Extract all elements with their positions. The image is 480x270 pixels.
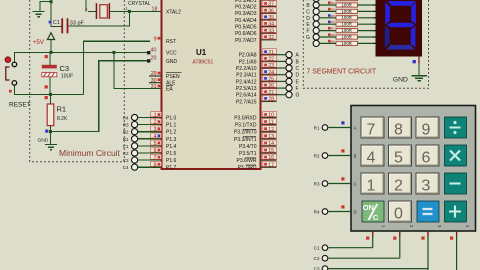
svg-text:C: C [373, 213, 379, 222]
svg-text:100R: 100R [342, 2, 352, 7]
svg-text:F: F [306, 29, 309, 35]
svg-text:R8: R8 [331, 33, 335, 37]
svg-text:7: 7 [366, 122, 375, 139]
svg-text:GND: GND [38, 137, 49, 143]
svg-text:20: 20 [151, 56, 157, 62]
svg-text:0: 0 [394, 206, 403, 223]
svg-text:RST: RST [166, 39, 176, 45]
svg-text:P2.1/A9: P2.1/A9 [239, 59, 257, 65]
svg-text:RESET: RESET [9, 102, 31, 109]
svg-text:G: G [296, 93, 300, 99]
svg-text:P1.3: P1.3 [166, 137, 177, 143]
svg-text:25: 25 [268, 77, 274, 83]
svg-text:G: G [306, 35, 310, 41]
svg-text:4: 4 [154, 134, 157, 140]
svg-text:R3: R3 [123, 123, 129, 128]
svg-text:1: 1 [154, 113, 157, 119]
svg-text:14: 14 [268, 141, 274, 147]
svg-text:P1.4: P1.4 [166, 144, 177, 150]
svg-text:P2.7/A15: P2.7/A15 [236, 99, 257, 105]
svg-text:36: 36 [268, 8, 274, 14]
svg-text:EA: EA [166, 86, 173, 92]
svg-text:100R: 100R [342, 34, 352, 39]
svg-text:C2: C2 [123, 151, 129, 156]
svg-text:R1: R1 [57, 105, 67, 114]
svg-text:C: C [306, 9, 310, 15]
svg-text:P0.5/AD5: P0.5/AD5 [235, 25, 257, 31]
svg-text:GND: GND [166, 59, 178, 65]
svg-text:R4: R4 [331, 7, 335, 11]
svg-text:8: 8 [394, 122, 403, 139]
svg-text:34: 34 [268, 22, 274, 28]
svg-text:P2.2/A10: P2.2/A10 [236, 66, 257, 72]
svg-text:P0.7/AD7: P0.7/AD7 [235, 38, 257, 44]
svg-text:P3.6/WR: P3.6/WR [236, 158, 256, 164]
svg-text:32: 32 [268, 35, 274, 41]
svg-text:31: 31 [151, 84, 157, 90]
svg-text:5: 5 [394, 150, 403, 167]
svg-text:GND: GND [393, 76, 408, 83]
svg-text:R7: R7 [331, 27, 335, 31]
svg-text:R5: R5 [331, 14, 335, 18]
svg-text:R1: R1 [123, 137, 129, 142]
svg-text:C3: C3 [60, 64, 70, 73]
svg-text:R4: R4 [123, 116, 129, 121]
svg-text:F: F [296, 86, 299, 92]
svg-text:1: 1 [366, 178, 375, 195]
svg-text:10UF: 10UF [61, 74, 73, 80]
svg-text:6: 6 [421, 150, 430, 167]
svg-text:A: A [354, 126, 357, 131]
svg-text:C3: C3 [123, 158, 129, 163]
svg-text:P3.7/RD: P3.7/RD [238, 165, 257, 171]
svg-text:5: 5 [154, 141, 157, 147]
svg-text:100R: 100R [342, 15, 352, 20]
svg-text:P3.5/T1: P3.5/T1 [239, 151, 257, 157]
svg-text:40: 40 [151, 47, 157, 53]
svg-text:P3.1/TXD: P3.1/TXD [235, 123, 257, 129]
svg-text:23: 23 [268, 63, 274, 69]
svg-text:P2.5/A13: P2.5/A13 [236, 86, 257, 92]
svg-text:P3.0/RXD: P3.0/RXD [234, 116, 257, 122]
svg-text:2: 2 [394, 178, 403, 195]
svg-text:C3: C3 [314, 267, 320, 270]
svg-text:C: C [353, 182, 356, 187]
svg-text:7 SEGMENT CIRCUIT: 7 SEGMENT CIRCUIT [307, 69, 377, 76]
svg-text:P2.4/A12: P2.4/A12 [236, 79, 257, 85]
svg-text:P0.6/AD6: P0.6/AD6 [235, 31, 257, 37]
svg-text:P2.6/A14: P2.6/A14 [236, 93, 257, 99]
svg-text:33: 33 [268, 28, 274, 34]
svg-text:D: D [306, 16, 310, 22]
svg-text:XTAL2: XTAL2 [166, 9, 181, 15]
svg-text:R2: R2 [314, 154, 320, 159]
svg-text:100R: 100R [342, 22, 352, 27]
svg-text:VCC: VCC [166, 51, 177, 57]
svg-text:2: 2 [154, 120, 157, 126]
svg-text:P0.3/AD3: P0.3/AD3 [235, 11, 257, 17]
svg-text:13: 13 [268, 134, 274, 140]
svg-text:C1: C1 [314, 246, 320, 251]
svg-text:R2: R2 [123, 130, 129, 135]
svg-text:P1.2: P1.2 [166, 130, 177, 136]
svg-text:6: 6 [154, 148, 157, 154]
svg-text:P1.5: P1.5 [166, 151, 177, 157]
svg-text:C2: C2 [314, 256, 320, 261]
svg-text:9: 9 [421, 122, 430, 139]
svg-text:35: 35 [268, 15, 274, 21]
svg-text:P1.7: P1.7 [166, 165, 177, 171]
svg-text:Minimum Circuit: Minimum Circuit [59, 148, 121, 158]
svg-text:B: B [354, 154, 357, 159]
svg-text:9: 9 [154, 36, 157, 42]
svg-text:7: 7 [154, 155, 157, 161]
svg-text:D: D [353, 210, 356, 215]
svg-text:100R: 100R [342, 41, 352, 46]
svg-text:CRYSTAL: CRYSTAL [128, 1, 151, 7]
svg-text:37: 37 [268, 2, 274, 8]
svg-text:18: 18 [152, 7, 158, 13]
svg-text:R4: R4 [314, 210, 320, 215]
svg-text:P0.1/AD1: P0.1/AD1 [235, 0, 257, 4]
svg-text:100R: 100R [342, 0, 352, 1]
svg-text:P3.4/T0: P3.4/T0 [239, 144, 257, 150]
svg-text:P1.1: P1.1 [166, 123, 177, 129]
svg-text:PSEN: PSEN [166, 74, 180, 80]
svg-text:10: 10 [268, 113, 274, 119]
svg-text:P2.0/A8: P2.0/A8 [239, 53, 257, 59]
svg-text:3: 3 [421, 178, 430, 195]
svg-text:12: 12 [268, 127, 274, 133]
svg-text:28: 28 [268, 97, 274, 103]
svg-text:100R: 100R [342, 28, 352, 33]
svg-text:P0.2/AD2: P0.2/AD2 [235, 5, 257, 11]
svg-text:8: 8 [154, 162, 157, 168]
svg-text:17: 17 [268, 162, 274, 168]
svg-text:100R: 100R [342, 9, 352, 14]
svg-text:R9: R9 [331, 39, 335, 43]
svg-text:4: 4 [366, 150, 375, 167]
svg-text:R1: R1 [314, 126, 320, 131]
svg-text:3: 3 [154, 127, 157, 133]
svg-text:8.2K: 8.2K [57, 116, 68, 122]
svg-text:R6: R6 [331, 20, 335, 24]
svg-text:R3: R3 [331, 1, 335, 5]
svg-text:P2.3/A11: P2.3/A11 [236, 73, 256, 79]
svg-text:+5V: +5V [33, 39, 45, 46]
svg-text:P3.3/INT1: P3.3/INT1 [234, 137, 257, 143]
svg-text:22: 22 [268, 57, 274, 63]
svg-text:16: 16 [268, 155, 274, 161]
svg-text:C1: C1 [53, 20, 60, 26]
svg-text:11: 11 [268, 120, 274, 126]
svg-text:C: C [296, 66, 300, 72]
svg-text:U1: U1 [196, 48, 207, 57]
svg-text:P1.0: P1.0 [166, 116, 177, 122]
svg-text:C4: C4 [123, 165, 129, 170]
svg-text:ON: ON [363, 203, 374, 212]
svg-text:AT89C51: AT89C51 [193, 60, 214, 66]
svg-text:15: 15 [268, 148, 274, 154]
svg-text:26: 26 [268, 83, 274, 89]
svg-text:33 pF: 33 pF [70, 21, 85, 27]
svg-text:C1: C1 [123, 144, 129, 149]
svg-text:21: 21 [268, 50, 274, 56]
svg-text:P1.6: P1.6 [166, 158, 177, 164]
svg-text:24: 24 [268, 70, 274, 76]
svg-text:D: D [296, 73, 300, 79]
svg-text:R3: R3 [314, 182, 320, 187]
svg-text:P3.2/INT0: P3.2/INT0 [234, 130, 257, 136]
svg-text:P0.4/AD4: P0.4/AD4 [235, 18, 257, 24]
svg-text:27: 27 [268, 90, 274, 96]
